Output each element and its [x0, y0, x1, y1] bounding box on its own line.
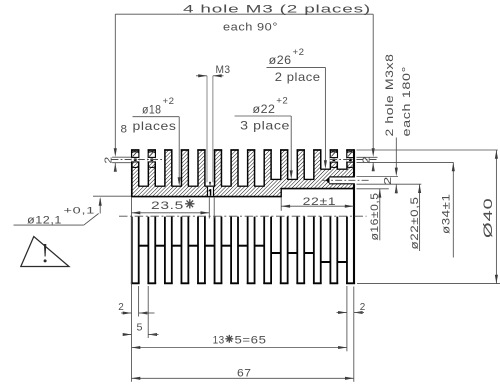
svg-text:2 place: 2 place	[275, 70, 321, 84]
svg-text:2 hole M3x8: 2 hole M3x8	[384, 54, 396, 137]
svg-text:ø22±0,5: ø22±0,5	[409, 197, 421, 250]
svg-text:2: 2	[360, 302, 366, 313]
svg-text:+2: +2	[293, 47, 305, 58]
svg-text:ø26: ø26	[269, 53, 292, 67]
svg-text:3 place: 3 place	[240, 119, 290, 133]
svg-text:+2: +2	[276, 96, 288, 107]
svg-text:places: places	[133, 119, 177, 133]
svg-text:8: 8	[121, 123, 128, 135]
svg-text:5=65: 5=65	[235, 335, 267, 347]
svg-text:ø18: ø18	[142, 103, 162, 117]
svg-text:ø16±0,5: ø16±0,5	[369, 193, 381, 241]
svg-text:5: 5	[137, 323, 144, 334]
svg-text:each 180°: each 180°	[401, 66, 413, 137]
svg-text:22±1: 22±1	[303, 196, 337, 208]
svg-text:M3: M3	[216, 64, 231, 76]
svg-text:each 90°: each 90°	[223, 22, 278, 34]
svg-text:Ø40: Ø40	[481, 198, 495, 239]
svg-text:23.5: 23.5	[151, 200, 184, 212]
svg-text:67: 67	[237, 368, 252, 380]
svg-text:+2: +2	[163, 96, 175, 107]
svg-text:2: 2	[103, 156, 114, 164]
svg-text:ø34±1: ø34±1	[440, 194, 452, 235]
svg-text:ø22: ø22	[253, 102, 276, 116]
svg-text:4 hole M3 (2 places): 4 hole M3 (2 places)	[183, 4, 371, 16]
svg-text:2: 2	[383, 176, 394, 185]
svg-text:13: 13	[213, 335, 225, 347]
svg-text:+0,1: +0,1	[64, 206, 96, 217]
svg-text:2: 2	[118, 302, 124, 313]
